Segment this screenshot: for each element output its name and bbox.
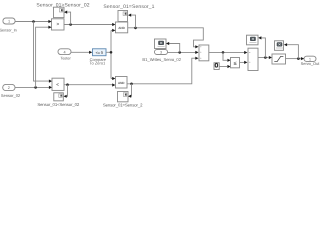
logical operator AND1 [116,22,128,33]
svg-text:3: 3 [160,51,162,55]
wire > out to AND1 in1 [64,24,112,26]
svg-text:2: 2 [8,86,10,90]
wire branch up into DSW1 [67,12,71,24]
compare to zero block [93,49,107,56]
relational operator < [52,78,64,90]
wire branch down to <= in1 [223,52,227,60]
wire AND2 out to switch1 in3 [127,58,196,84]
svg-text:To Zero1: To Zero1 [90,61,107,66]
wire Sensor_In down to < in1 [34,22,50,82]
wire branch down into DSW3 [130,84,133,96]
svg-text:Sensor_01<Sensor_02: Sensor_01<Sensor_02 [37,102,80,107]
inport oval B1_Writes_Servo_02 [155,50,168,55]
svg-text:>: > [56,21,59,26]
svg-text:1: 1 [8,20,10,24]
scope SC1 [247,35,259,45]
wire branch down into DSW4 [67,85,68,97]
data store write DSW3 [118,92,129,102]
scope SC2 [275,41,284,51]
wire branch up into SC3 [169,44,180,53]
wire Sensor_02 up to > in2 [36,27,49,87]
wire to AND1 in2 [111,29,112,31]
wire SW1 out to SW2 in1 [209,51,245,53]
node junction on AND2 out [130,83,133,86]
node junction on > out [69,23,72,26]
svg-text:Sensor_01=Sensor_1: Sensor_01=Sensor_1 [103,4,154,10]
node junction on Sensor_02 wire [34,86,37,89]
wire branch up into SC2 [287,45,299,59]
svg-text:Sensor_02: Sensor_02 [1,93,21,98]
wire SW2 out to saturation [258,57,269,59]
svg-text:Sensor_In: Sensor_In [0,27,17,32]
wire inport3 to switch1 in2 [168,51,196,53]
switch block SW1 [199,45,209,61]
node junction on SW2 out [264,56,267,59]
wire branch up into SC1 [261,38,265,58]
wire Sensor_02 to < in2 [15,86,49,88]
constant 0 block [214,63,219,70]
inport oval Sensor_In [3,18,15,24]
node junction on saturation out [297,57,300,60]
node junction on AND1 out [134,27,137,30]
wire constant 0 to <= in2 [219,66,227,68]
wire Tester to compare [71,51,89,53]
svg-text:4: 4 [63,50,65,54]
node junction on Sensor_In wire [32,20,35,23]
data store write DSW4 [54,93,64,101]
data store write DSW2 [118,11,128,22]
wire Sensor_In to > in1 [15,21,49,23]
wire branch up into DSW2 [131,15,136,28]
wire AND1 out to switch1 in1 (with jog) [128,28,204,47]
node junction on < out [66,83,69,86]
node junction on SW1 out [222,51,225,54]
wire compare out [106,51,111,53]
svg-text:Servo_Out: Servo_Out [301,61,320,66]
svg-text:<= 0: <= 0 [96,50,103,55]
svg-text:AND: AND [118,81,125,85]
svg-text:B1_Writes_Servo_02: B1_Writes_Servo_02 [142,57,181,62]
wire < out to AND2 in2 [64,84,112,86]
wire <= out to SW2 in3 [240,61,245,63]
svg-text:AND: AND [118,26,125,30]
node junction on inport3 wire [178,51,181,54]
svg-text:≤: ≤ [234,61,237,67]
data store write DSW1 [54,7,65,17]
relational operator <= [231,58,240,68]
svg-text:Tester: Tester [60,57,71,61]
wire saturation out to Servo_Out [286,58,301,60]
node junction compare out [110,51,113,54]
wire compare net vertical [110,30,112,78]
outport oval Servo_Out [304,56,316,61]
switch block SW2 [248,48,258,70]
svg-text:<: < [56,82,59,87]
wire to AND2 in1 [111,78,112,80]
inport oval Sensor_02 [3,84,15,90]
svg-text:Sensor_01=Sensor_2: Sensor_01=Sensor_2 [103,102,143,107]
logical operator AND2 [116,77,128,89]
scope SC3 [155,39,167,49]
saturation block [272,54,286,64]
inport oval Tester [58,49,71,55]
relational operator > [52,19,65,30]
